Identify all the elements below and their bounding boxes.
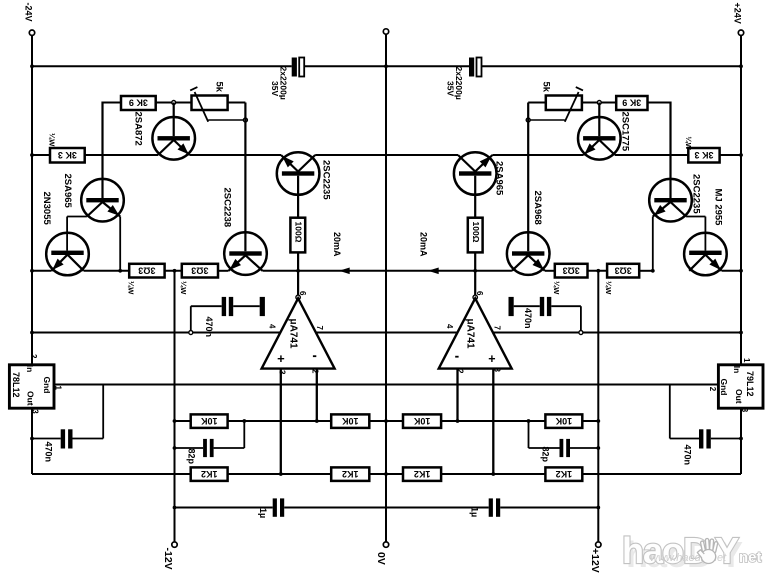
capacitor C5 470n left-bottom [61, 429, 65, 448]
resistor R14 10K [545, 414, 582, 428]
op-amp U1 uA741 [262, 298, 335, 368]
wire 10K row c [369, 420, 403, 422]
transistor Q1 2SA872 [152, 117, 195, 160]
svg-text:6: 6 [298, 291, 307, 296]
resistor R17 1K2 [403, 467, 441, 481]
svg-text:470n: 470n [683, 445, 693, 466]
wire pot-L wiper link [208, 119, 245, 121]
wire rail4 right [493, 332, 741, 334]
wire right rail +24V vertical [740, 36, 742, 365]
node +12V terminal [596, 542, 601, 547]
wire 1K2 row c [369, 473, 403, 475]
svg-text:μA741: μA741 [288, 319, 299, 349]
svg-text:1µ: 1µ [258, 508, 268, 518]
wire R6 to op-amp U2 pin6 [474, 252, 476, 294]
transistor Q8 2SA968 [507, 232, 550, 275]
svg-text:35V: 35V [270, 81, 280, 96]
transistor Q2 2SC1775 [578, 117, 621, 160]
capacitor C2 2x2200u right [469, 58, 474, 77]
wire op U1 pin3 down [280, 369, 282, 474]
svg-text:20mA: 20mA [332, 232, 342, 257]
wire 1K2 row e [582, 473, 741, 475]
watermark haoDIY.net [622, 530, 762, 575]
transistor Q9 2SC2235 left output [277, 152, 320, 195]
wire 3K9-L to pot-L [156, 102, 192, 104]
wire 470n-L gnd branch [102, 385, 104, 439]
wire 1K2 row a [32, 473, 191, 475]
wire op U2 pin3 down [492, 369, 494, 474]
transistor Q7 2SC2238 [224, 232, 267, 275]
resistor R10 3R3 [607, 264, 639, 278]
svg-text:2: 2 [708, 387, 717, 392]
node 0V bottom terminal [383, 542, 388, 547]
IC U4 79L12 [718, 365, 763, 408]
resistor R3 3K3 left [50, 148, 85, 163]
svg-text:470n: 470n [44, 442, 54, 463]
svg-text:3: 3 [278, 370, 287, 375]
wire 82p-R branch [570, 447, 598, 449]
wire 470n-R gnd branch [669, 385, 671, 439]
wire 1K2 row b [228, 473, 332, 475]
IC U3 78L12 [9, 365, 54, 408]
wire 1u row right [500, 507, 598, 509]
wire rail3 b [165, 270, 182, 272]
resistor R16 1K2 [331, 467, 369, 481]
wire pot-R wiper link [528, 119, 565, 121]
transistor Q10 2SA965 right output [454, 152, 497, 195]
wire rail2 left segment [32, 154, 158, 156]
resistor R2 3K9 right [616, 96, 647, 110]
svg-text:10K: 10K [413, 416, 430, 426]
svg-text:¼W: ¼W [127, 281, 136, 295]
svg-text:1: 1 [54, 386, 63, 391]
svg-text:7: 7 [315, 326, 324, 331]
wire rail2 segment center [315, 154, 458, 156]
wire rail3 a [84, 270, 130, 272]
wire left rail -24V vertical [31, 36, 33, 365]
resistor R1 3K9 left [121, 96, 156, 110]
resistor R7 3R3 [129, 264, 164, 278]
svg-text:100Ω: 100Ω [293, 222, 303, 243]
node base 2SC1775 junction [597, 101, 601, 105]
svg-text:7: 7 [493, 326, 502, 331]
svg-text:+: + [277, 351, 285, 366]
svg-text:¼W: ¼W [179, 281, 188, 295]
svg-text:5k: 5k [214, 82, 225, 93]
svg-text:Gnd: Gnd [719, 379, 729, 396]
svg-text:+: + [488, 352, 495, 366]
resistor R6 100ohm right [468, 218, 483, 253]
transistor Q6 MJ2955 [684, 233, 727, 276]
svg-text:3Ω3: 3Ω3 [563, 265, 580, 275]
svg-text:3K 9: 3K 9 [622, 98, 641, 108]
svg-text:net: net [739, 549, 762, 566]
svg-text:1: 1 [742, 358, 751, 363]
resistor R15 1K2 [191, 467, 228, 481]
svg-text:3K 3: 3K 3 [694, 150, 713, 160]
svg-text:3Ω3: 3Ω3 [138, 265, 155, 275]
svg-text:2SA965: 2SA965 [62, 174, 73, 209]
wire center 0V rail vertical [385, 34, 387, 542]
svg-text:Out: Out [734, 389, 744, 404]
svg-text:470n: 470n [523, 308, 533, 329]
wire 82p-L branch [175, 447, 204, 449]
svg-text:35V: 35V [446, 81, 456, 96]
wire 1u row left [175, 507, 273, 509]
wire 78L12 out down [31, 408, 33, 474]
capacitor C6 470n right-bottom [699, 429, 703, 448]
svg-text:μA741: μA741 [465, 319, 476, 349]
wire top rail segment center [304, 65, 469, 67]
svg-text:¼W: ¼W [684, 137, 693, 151]
svg-text:3Ω3: 3Ω3 [191, 265, 208, 275]
resistor R11 10K [191, 414, 228, 428]
svg-text:3K 3: 3K 3 [58, 150, 77, 160]
wire rail3 c [218, 270, 229, 272]
svg-text:0V: 0V [375, 552, 387, 565]
svg-text:2SA968: 2SA968 [532, 191, 543, 225]
node -24V terminal [29, 30, 34, 35]
svg-text:¼W: ¼W [48, 133, 57, 147]
capacitor C9 1u left [273, 498, 277, 516]
node base 2SA872 junction [172, 101, 176, 105]
wire rail2 right segment [615, 154, 741, 156]
node -12V terminal [172, 542, 177, 547]
wire rail3 g [722, 270, 741, 272]
svg-text:10K: 10K [200, 416, 217, 426]
svg-text:1K2: 1K2 [556, 469, 573, 479]
node +24V terminal [738, 30, 743, 35]
wire rail2 segment b [189, 154, 281, 156]
transistor Q5 2N3055 [46, 233, 89, 276]
wire 1K2 row d [441, 473, 545, 475]
wire 10K row a [175, 420, 191, 422]
svg-text:2SC2238: 2SC2238 [222, 188, 233, 228]
svg-text:In: In [25, 365, 35, 373]
svg-text:haoD: haoD [622, 530, 708, 571]
wire op U2 pin2 down [456, 369, 458, 421]
svg-text:¼W: ¼W [552, 281, 561, 295]
wire C6 to out [711, 438, 741, 440]
svg-text:-12V: -12V [162, 548, 174, 570]
svg-text:1K2: 1K2 [414, 469, 431, 479]
svg-text:20mA: 20mA [419, 232, 429, 257]
wire 3K9-L left lead [103, 102, 122, 104]
capacitor C4 470n right [580, 306, 582, 330]
wire 1u row center [284, 507, 489, 509]
wire Q3 emitter to Q5 base [67, 216, 87, 218]
svg-text:100Ω: 100Ω [471, 222, 481, 243]
wire rail3 e [588, 270, 608, 272]
svg-text:4: 4 [445, 324, 454, 329]
wire 10K row d [441, 420, 545, 422]
wire +12V vertical [597, 271, 599, 542]
resistor R5 100ohm left [290, 218, 305, 253]
svg-text:82p: 82p [541, 447, 551, 463]
svg-text:2SC1775: 2SC1775 [620, 112, 631, 152]
wire C5 to out [32, 438, 61, 440]
capacitor C7 82p left [203, 439, 207, 457]
wire rail4 center [316, 332, 457, 334]
wire rail2 segment d [492, 154, 583, 156]
potentiometer VR2 5k right [546, 96, 582, 111]
svg-text:5k: 5k [541, 82, 552, 93]
svg-text:6: 6 [475, 291, 484, 296]
wire top rail segment left [32, 65, 292, 67]
wire Q4 emitter to Q6 base [686, 216, 705, 218]
resistor R8 3R3 [182, 264, 218, 278]
wire pot-R left lead [528, 102, 546, 104]
transistor Q3 2SA965 left [81, 179, 124, 222]
capacitor C10 1u right [489, 498, 493, 516]
svg-text:78L12: 78L12 [11, 372, 21, 398]
svg-text:82p: 82p [187, 449, 197, 465]
wire rail3 far left [32, 270, 52, 272]
resistor R4 3K3 right [688, 148, 719, 163]
svg-text:MJ 2955: MJ 2955 [713, 189, 724, 227]
wire pot-L right lead [228, 102, 246, 104]
svg-text:10K: 10K [342, 416, 359, 426]
svg-text:79L12: 79L12 [745, 371, 755, 397]
wire op U1 pin2 down [316, 369, 318, 421]
svg-text:-24V: -24V [24, 3, 34, 22]
wire rail3 f [639, 270, 653, 272]
wire rail4 left [32, 332, 280, 334]
capacitor C8 82p right [560, 439, 564, 457]
node 0V top terminal [383, 29, 388, 34]
svg-text:2: 2 [29, 354, 38, 359]
resistor R13 10K [403, 414, 441, 428]
svg-text:4: 4 [268, 324, 277, 329]
svg-text:1µ: 1µ [470, 507, 480, 517]
wire 3K9-R right lead [648, 102, 671, 104]
wire R5 to op-amp U1 pin6 [297, 252, 299, 294]
op-amp U2 uA741 [439, 298, 512, 368]
svg-text:Gnd: Gnd [42, 377, 52, 394]
svg-text:In: In [732, 366, 742, 374]
wire Q4 collector down [652, 217, 654, 271]
transistor Q4 2SC2235 right-driver [649, 179, 692, 222]
svg-text:10K: 10K [555, 416, 572, 426]
svg-text:3K 9: 3K 9 [129, 98, 148, 108]
wire -12V vertical [174, 271, 176, 542]
potentiometer VR1 5k left [192, 96, 228, 111]
svg-text:Out: Out [25, 391, 35, 406]
resistor R18 1K2 [545, 467, 582, 481]
svg-text:+24V: +24V [733, 3, 743, 24]
wire ground row [54, 384, 718, 386]
wire Q3 collector down [119, 217, 121, 271]
wire 10K row b [228, 420, 332, 422]
svg-text:2SC2235: 2SC2235 [691, 174, 702, 214]
svg-text:2N3055: 2N3055 [41, 192, 52, 226]
svg-text:3Ω3: 3Ω3 [615, 265, 632, 275]
wire pot-R to 3K9-R [582, 102, 616, 104]
resistor R9 3R3 [555, 264, 588, 278]
wire top rail segment right [482, 65, 741, 67]
svg-text:Y: Y [715, 530, 739, 571]
capacitor C3 470n left [190, 306, 192, 330]
wire rail3 center with 20mA arrows [263, 270, 512, 272]
svg-text:1K2: 1K2 [201, 469, 218, 479]
capacitor C1 2x2200u left [292, 58, 297, 77]
wire 79L12 out down [740, 408, 742, 474]
wire rail3 d [545, 270, 555, 272]
svg-text:1K2: 1K2 [342, 469, 359, 479]
svg-text:2SC2235: 2SC2235 [320, 160, 331, 200]
svg-text:2: 2 [311, 369, 320, 374]
svg-text:2SA872: 2SA872 [132, 112, 143, 146]
svg-text:470n: 470n [204, 317, 214, 338]
wire 10K row e [582, 420, 598, 422]
svg-text:+12V: +12V [589, 548, 601, 573]
resistor R12 10K [331, 414, 369, 428]
svg-text:¼W: ¼W [604, 281, 613, 295]
svg-text:2SA965: 2SA965 [494, 161, 505, 196]
